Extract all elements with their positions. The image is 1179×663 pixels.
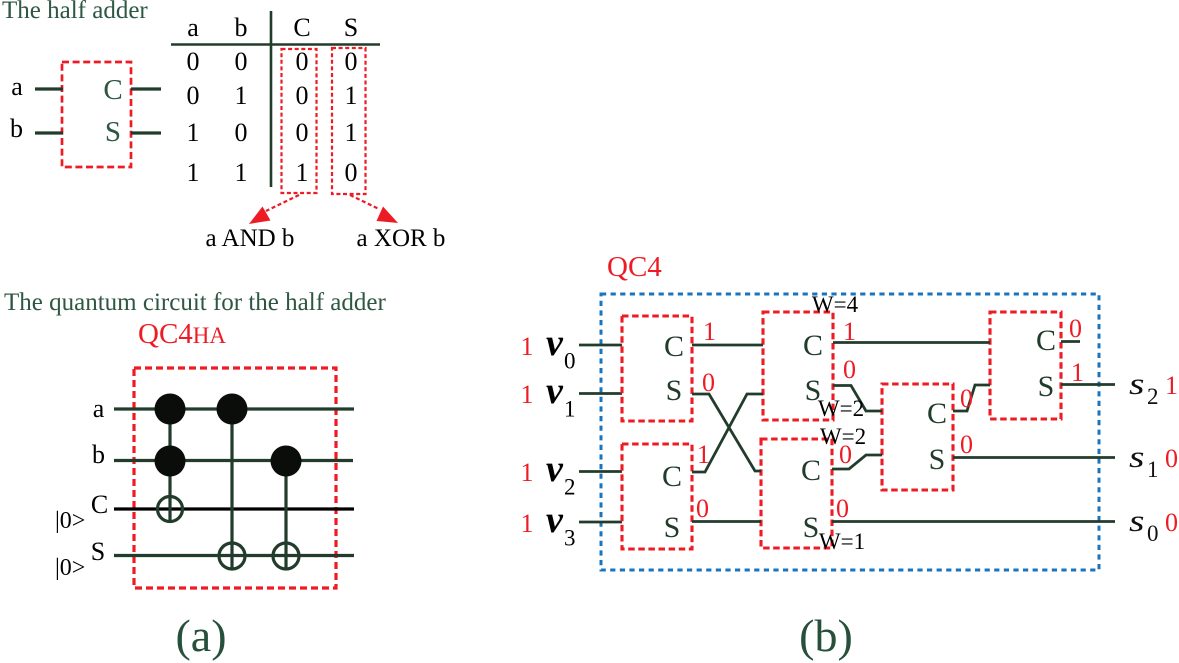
svg-text:S: S xyxy=(803,511,820,544)
svg-text:0: 0 xyxy=(702,368,715,397)
svg-text:S: S xyxy=(666,374,683,407)
svg-text:W=1: W=1 xyxy=(819,529,865,554)
svg-text:0: 0 xyxy=(1069,314,1082,343)
svg-text:b: b xyxy=(10,114,23,143)
svg-text:1: 1 xyxy=(187,158,200,187)
svg-text:1: 1 xyxy=(521,332,534,361)
svg-text:0: 0 xyxy=(960,384,973,413)
svg-text:1: 1 xyxy=(521,458,534,487)
svg-text:0: 0 xyxy=(296,47,309,76)
svg-text:b: b xyxy=(92,440,105,469)
svg-text:0: 0 xyxy=(187,47,200,76)
svg-text:C: C xyxy=(293,13,310,42)
svg-text:0: 0 xyxy=(1165,508,1178,537)
svg-text:0: 0 xyxy=(296,81,309,110)
svg-text:The quantum circuit for the ha: The quantum circuit for the half adder xyxy=(4,289,386,316)
svg-text:1: 1 xyxy=(843,317,856,346)
svg-text:QC4: QC4 xyxy=(607,251,662,283)
svg-text:1: 1 xyxy=(296,158,309,187)
svg-text:a: a xyxy=(187,13,199,42)
svg-text:v: v xyxy=(546,322,564,364)
svg-text:1: 1 xyxy=(564,397,576,422)
svg-text:s: s xyxy=(1129,439,1145,474)
svg-text:1: 1 xyxy=(1071,358,1084,387)
svg-text:1: 1 xyxy=(703,317,716,346)
svg-text:C: C xyxy=(103,74,122,106)
svg-text:3: 3 xyxy=(564,526,576,551)
svg-text:S: S xyxy=(344,13,358,42)
svg-text:v: v xyxy=(546,370,564,412)
svg-text:0: 0 xyxy=(187,81,200,110)
svg-text:C: C xyxy=(1036,324,1056,357)
svg-text:C: C xyxy=(801,454,821,487)
svg-text:a XOR b: a XOR b xyxy=(357,225,446,252)
svg-text:S: S xyxy=(929,443,946,476)
svg-text:0: 0 xyxy=(1165,444,1178,473)
svg-text:0: 0 xyxy=(235,118,248,147)
svg-text:1: 1 xyxy=(235,158,248,187)
svg-text:(a): (a) xyxy=(175,610,226,661)
svg-text:a: a xyxy=(11,72,23,101)
svg-text:C: C xyxy=(927,397,947,430)
svg-text:1: 1 xyxy=(521,509,534,538)
svg-text:0: 0 xyxy=(960,430,973,459)
svg-text:a: a xyxy=(93,394,105,423)
svg-text:1: 1 xyxy=(697,440,710,469)
svg-text:S: S xyxy=(91,537,105,566)
svg-text:s: s xyxy=(1129,366,1145,401)
svg-text:(b): (b) xyxy=(799,610,853,661)
svg-text:b: b xyxy=(235,13,248,42)
svg-text:0: 0 xyxy=(1147,521,1159,546)
svg-text:2: 2 xyxy=(1147,384,1159,409)
svg-text:1: 1 xyxy=(521,380,534,409)
svg-text:0: 0 xyxy=(345,158,358,187)
svg-text:1: 1 xyxy=(1165,371,1178,400)
svg-text:The half adder: The half adder xyxy=(2,0,148,24)
svg-text:C: C xyxy=(664,330,684,363)
svg-text:0: 0 xyxy=(696,494,709,523)
svg-text:1: 1 xyxy=(1147,457,1159,482)
svg-text:0: 0 xyxy=(836,494,849,523)
svg-text:QC4HA: QC4HA xyxy=(138,318,226,350)
svg-text:1: 1 xyxy=(187,118,200,147)
svg-text:W=2: W=2 xyxy=(818,396,864,421)
svg-text:1: 1 xyxy=(235,81,248,110)
svg-text:S: S xyxy=(105,116,121,148)
svg-text:W=2: W=2 xyxy=(820,424,866,449)
svg-text:C: C xyxy=(803,329,823,362)
svg-text:0: 0 xyxy=(345,47,358,76)
svg-text:S: S xyxy=(664,511,681,544)
svg-text:S: S xyxy=(1038,370,1055,403)
svg-text:0: 0 xyxy=(843,355,856,384)
svg-text:C: C xyxy=(662,460,682,493)
svg-text:0: 0 xyxy=(296,118,309,147)
svg-text:W=4: W=4 xyxy=(812,292,859,317)
svg-text:|0>: |0> xyxy=(55,508,85,534)
svg-text:0: 0 xyxy=(235,47,248,76)
svg-text:1: 1 xyxy=(345,118,358,147)
svg-text:|0>: |0> xyxy=(55,555,85,581)
svg-text:0: 0 xyxy=(564,349,576,374)
svg-text:2: 2 xyxy=(564,475,576,500)
svg-text:C: C xyxy=(91,490,108,519)
svg-text:a AND b: a AND b xyxy=(206,225,295,252)
svg-text:v: v xyxy=(546,499,564,541)
svg-text:s: s xyxy=(1129,503,1145,538)
svg-text:1: 1 xyxy=(345,81,358,110)
svg-text:v: v xyxy=(546,448,564,490)
